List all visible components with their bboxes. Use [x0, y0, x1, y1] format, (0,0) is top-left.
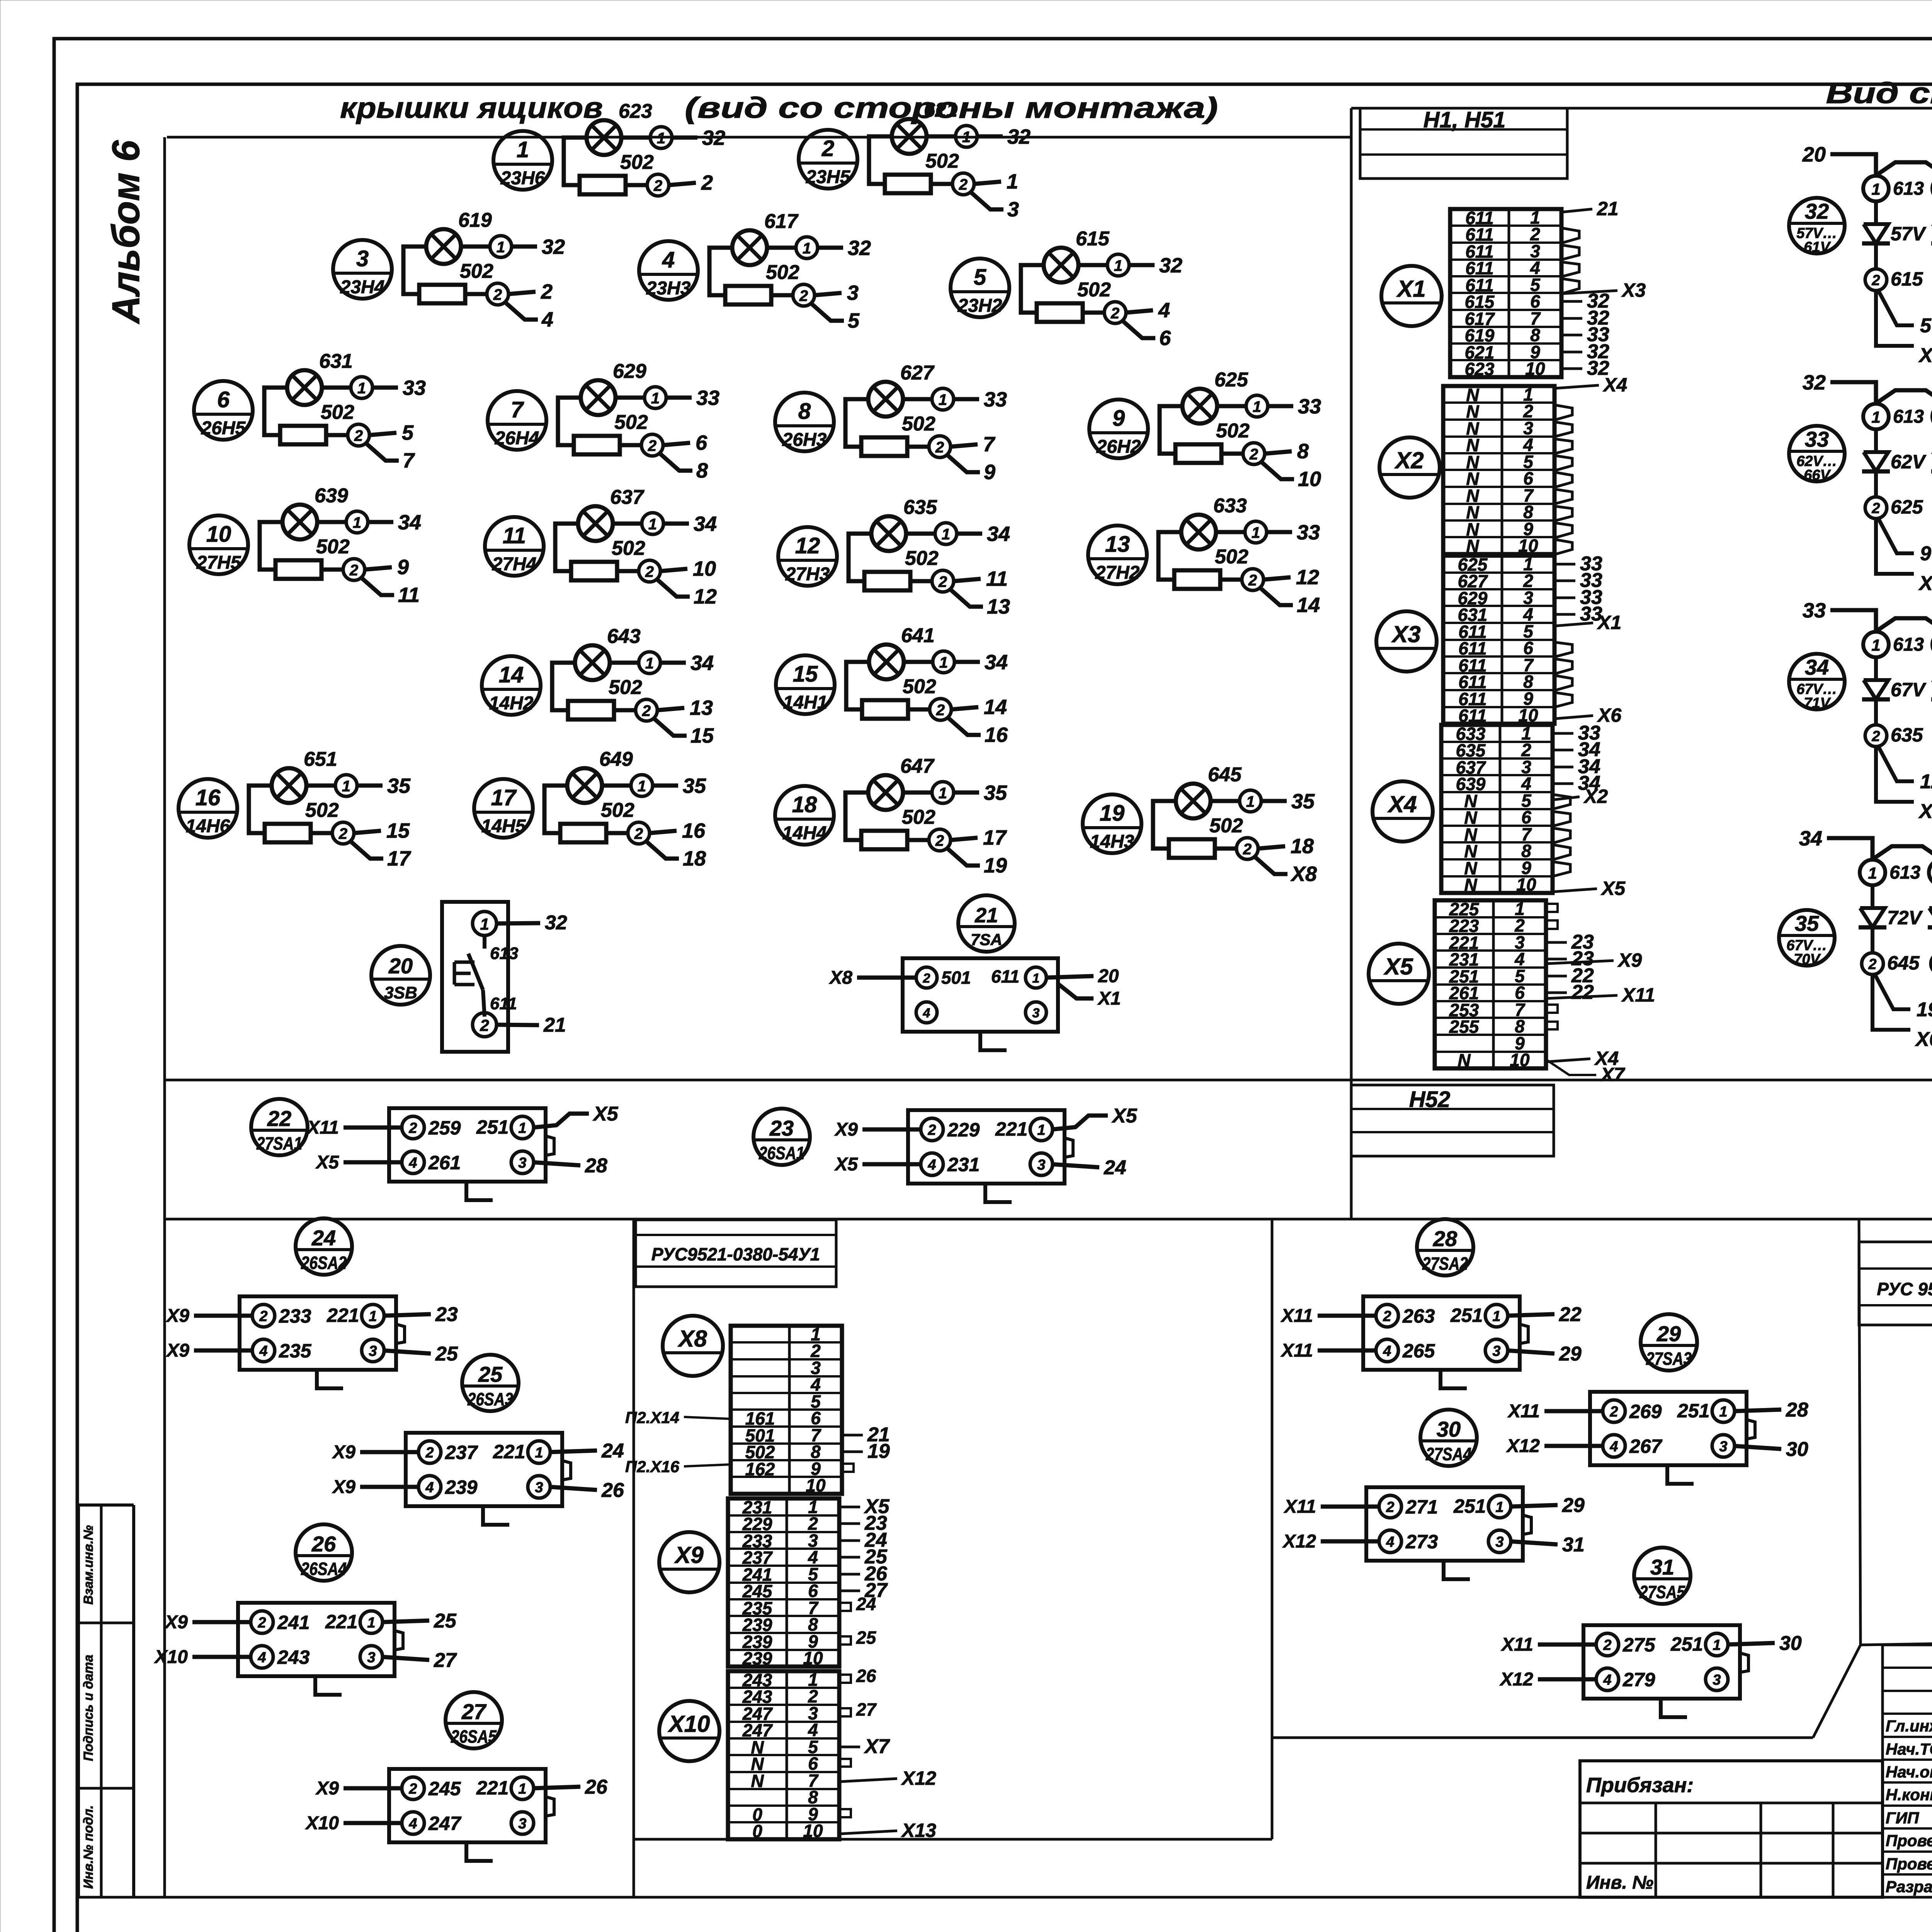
lamp HL 641	[869, 645, 904, 679]
svg-text:239: 239	[445, 1476, 478, 1498]
X4 row 5 tie mark	[1553, 794, 1570, 809]
terminal 4	[251, 1646, 273, 1668]
wire from Х11	[1544, 1409, 1604, 1413]
switch 21 body box	[903, 958, 1058, 1032]
wire to net 21	[497, 1025, 539, 1025]
svg-text:33: 33	[1298, 395, 1321, 418]
svg-text:221: 221	[493, 1441, 525, 1463]
svg-text:2: 2	[642, 702, 651, 719]
branch wire to net 8	[660, 453, 692, 471]
svg-text:19: 19	[984, 854, 1007, 877]
position circle 28/27SA2	[1417, 1219, 1473, 1276]
lamp-diode group 34 (67V...71V)	[1789, 599, 1932, 823]
X9 row 6 wire to 27	[839, 1590, 860, 1592]
svg-text:1: 1	[942, 526, 950, 543]
svg-text:1: 1	[803, 240, 811, 257]
svg-text:2: 2	[936, 702, 945, 719]
resistor 502	[276, 560, 321, 579]
svg-text:231: 231	[947, 1154, 980, 1175]
svg-text:32: 32	[1805, 199, 1829, 223]
ground tail	[466, 1842, 493, 1861]
svg-text:251: 251	[1450, 1304, 1483, 1326]
wire to 27	[382, 1657, 429, 1660]
svg-text:1: 1	[535, 1445, 543, 1461]
svg-text:Х5: Х5	[1600, 878, 1626, 899]
svg-text:Н52: Н52	[1409, 1087, 1450, 1112]
svg-text:7: 7	[511, 397, 524, 422]
switch body box	[1366, 1487, 1523, 1561]
right edge notch	[1065, 1138, 1073, 1157]
svg-text:Х1: Х1	[1396, 276, 1425, 302]
terminal circle 2	[332, 822, 354, 844]
terminal 3	[362, 1339, 384, 1362]
wire to net 35	[653, 784, 678, 788]
wire resistor to terminal 2	[311, 831, 332, 835]
svg-text:34: 34	[694, 512, 717, 536]
svg-text:Х1: Х1	[1097, 988, 1121, 1009]
branch 2: lamp	[1928, 860, 1932, 1051]
lamp HL 649	[567, 768, 602, 803]
button actuator	[453, 962, 456, 985]
svg-text:34: 34	[1805, 655, 1829, 679]
terminal 4	[252, 1339, 275, 1362]
lamp HL 625	[1182, 389, 1217, 423]
position circle 7/26Н4	[488, 391, 546, 450]
wire bracket	[264, 388, 288, 435]
svg-text:15: 15	[793, 662, 818, 687]
svg-text:67V: 67V	[1891, 679, 1927, 701]
X1 row 6 wire to Х3	[1561, 291, 1617, 294]
svg-text:14Н1: 14Н1	[783, 692, 828, 713]
terminal 4	[1603, 1435, 1625, 1457]
position circle 22/27SA1	[251, 1099, 308, 1155]
selector switch 21 (7SA)	[828, 895, 1121, 1050]
svg-text:Взам.инв.№: Взам.инв.№	[81, 1525, 96, 1605]
svg-text:33: 33	[1297, 521, 1320, 544]
svg-text:Провер.: Провер.	[1886, 1855, 1932, 1873]
svg-text:617: 617	[764, 210, 799, 233]
wire to net 3	[815, 293, 842, 295]
svg-text:Х12: Х12	[1506, 1436, 1540, 1456]
X3 row 5 wire to Х1	[1554, 623, 1593, 626]
top bus wire, net 34	[1827, 838, 1872, 859]
X1 row 3 tie mark	[1561, 245, 1579, 260]
selector switch 22 (27SA1)	[251, 1099, 619, 1200]
terminal circle 2	[639, 560, 660, 582]
terminal 1	[1030, 1118, 1053, 1141]
svg-text:623: 623	[1465, 359, 1495, 379]
terminal 4	[402, 1151, 424, 1173]
bus humps	[1876, 162, 1932, 175]
X2 row 7 tie mark	[1554, 489, 1572, 504]
wire to 25	[382, 1621, 429, 1622]
wire lamp to terminal 1	[906, 532, 936, 536]
svg-text:26SA4: 26SA4	[301, 1559, 347, 1579]
svg-text:2: 2	[1248, 572, 1257, 589]
svg-text:14: 14	[984, 696, 1007, 719]
module label RUS9521-0380-54U1 right	[1859, 1242, 1932, 1325]
top bus wire, net 20	[1830, 154, 1876, 175]
svg-text:2: 2	[493, 286, 502, 303]
svg-text:33: 33	[696, 386, 719, 410]
svg-text:29: 29	[1559, 1343, 1582, 1365]
svg-text:635: 635	[1891, 724, 1923, 746]
wire to 28	[1734, 1410, 1781, 1411]
terminal 1	[511, 1116, 534, 1139]
svg-text:18: 18	[1291, 835, 1314, 858]
wire to net 8	[1265, 451, 1292, 454]
svg-text:4: 4	[408, 1155, 417, 1171]
X1 row 9 wire to 32	[1561, 351, 1582, 354]
svg-text:32: 32	[1803, 371, 1826, 394]
wire from Х9	[192, 1620, 252, 1624]
svg-text:221: 221	[476, 1777, 509, 1799]
X10 row 10 wire to Х13	[839, 1831, 897, 1834]
branch 1: terminal 635	[1874, 699, 1878, 725]
svg-text:502: 502	[905, 547, 939, 570]
svg-text:27Н2: 27Н2	[1095, 563, 1140, 583]
terminal circle 1	[796, 237, 818, 259]
svg-text:633: 633	[1213, 495, 1247, 517]
X2 row 2 tie mark	[1554, 405, 1572, 420]
svg-text:613: 613	[490, 944, 518, 963]
svg-text:15: 15	[690, 724, 714, 747]
position circle 19/14Н3	[1083, 794, 1141, 853]
svg-text:265: 265	[1402, 1340, 1435, 1362]
wire lamp to terminal 1	[1217, 404, 1247, 408]
indicator lamp circuit 10 (27Н5)	[189, 485, 421, 607]
svg-text:10: 10	[1298, 468, 1321, 491]
X5 row 4 wire to 23	[1546, 958, 1567, 961]
resistor 502	[574, 436, 620, 454]
lamp-diode group 32 (57V...61V)	[1789, 143, 1932, 367]
branch 1: lamp	[1859, 860, 1932, 1051]
terminal strip table X5	[1435, 899, 1655, 1085]
svg-text:Х4: Х4	[1918, 800, 1932, 823]
svg-text:8: 8	[798, 399, 811, 424]
X2 row 3 tie mark	[1554, 422, 1572, 437]
svg-text:2: 2	[1249, 446, 1258, 463]
ground tail	[985, 1184, 1012, 1202]
resistor 502	[571, 562, 617, 580]
svg-text:12: 12	[795, 533, 820, 558]
wire resistor to terminal 2	[931, 182, 952, 186]
terminal circle 2 of switch	[473, 1013, 497, 1037]
svg-text:Инв. №: Инв. №	[1586, 1872, 1653, 1893]
terminal circle 2	[929, 436, 951, 457]
svg-text:19: 19	[867, 1440, 890, 1463]
X9 row 5 wire to 26	[839, 1573, 860, 1576]
svg-text:32: 32	[545, 912, 567, 934]
svg-text:26SA1: 26SA1	[759, 1143, 804, 1163]
connector designator Х5	[1369, 944, 1429, 1004]
svg-text:2: 2	[259, 1308, 267, 1325]
svg-text:34: 34	[1799, 827, 1822, 850]
svg-text:21: 21	[975, 904, 998, 927]
X3 row 2 wire to 33	[1554, 580, 1575, 582]
band top line (row of cells 22-23)	[165, 1079, 1932, 1082]
wire to net 35	[954, 791, 979, 795]
svg-text:Вид спереди: Вид спереди	[1826, 77, 1932, 110]
svg-text:Х9: Х9	[1617, 949, 1642, 971]
svg-text:229: 229	[947, 1119, 980, 1141]
svg-text:647: 647	[900, 755, 935, 777]
svg-text:502: 502	[1209, 815, 1243, 837]
terminal circle 2	[932, 570, 954, 592]
svg-text:4: 4	[1158, 299, 1170, 322]
X8 external wire П2.Х16	[684, 1464, 731, 1466]
lamp-diode group 35 (67V...70V)	[1779, 827, 1932, 1051]
svg-text:6: 6	[217, 387, 230, 412]
svg-text:645: 645	[1208, 764, 1242, 786]
svg-text:1: 1	[480, 915, 489, 933]
X1 row 10 wire to 32	[1561, 367, 1582, 370]
X5 row 6 wire to Х11	[1546, 995, 1617, 998]
svg-text:62V: 62V	[1891, 451, 1927, 473]
svg-text:501: 501	[941, 968, 971, 988]
indicator lamp circuit 5 (23Н2)	[951, 228, 1182, 350]
svg-text:26Н5: 26Н5	[201, 418, 246, 439]
wire to net 13	[657, 708, 684, 710]
terminal 3	[1485, 1339, 1508, 1362]
terminal 2	[1379, 1495, 1401, 1518]
wire from Х11	[1318, 1314, 1377, 1318]
svg-text:4: 4	[927, 1157, 936, 1173]
wire to 24	[1052, 1164, 1099, 1167]
terminal 2	[252, 1304, 275, 1327]
svg-text:502: 502	[1215, 546, 1248, 568]
branch wire to net 19	[947, 848, 980, 866]
wire to net 5	[369, 433, 396, 435]
lamp HL 621	[892, 119, 927, 154]
X4 row 10 wire to Х5	[1553, 889, 1597, 892]
branch wire to net 3	[971, 192, 1003, 209]
svg-text:502: 502	[1077, 279, 1111, 301]
svg-text:7: 7	[983, 433, 996, 456]
wire to net 18	[1258, 846, 1285, 849]
svg-text:2: 2	[821, 136, 834, 161]
wire from Х11	[344, 1126, 403, 1130]
terminal 2	[402, 1777, 424, 1799]
terminal circle 1	[1107, 254, 1129, 276]
wire resistor to terminal 2	[771, 293, 793, 298]
position circle 8/26Н3	[775, 393, 834, 451]
wire to net 2	[669, 183, 696, 185]
wire resistor to terminal 2	[465, 292, 487, 296]
terminal 4	[916, 1002, 937, 1023]
svg-text:243: 243	[277, 1646, 310, 1668]
svg-text:27: 27	[461, 1699, 487, 1724]
wire lamp to terminal 1	[317, 520, 347, 524]
terminal strip table X8	[731, 1324, 890, 1495]
wire lamp to terminal 1	[610, 661, 639, 665]
svg-text:3: 3	[1492, 1343, 1500, 1359]
X1 row 4 tie mark	[1561, 262, 1579, 277]
svg-text:261: 261	[428, 1152, 461, 1173]
cells 28-31 section diagonal	[1813, 1645, 1861, 1738]
svg-text:31: 31	[1650, 1555, 1674, 1579]
svg-text:Х1: Х1	[1918, 344, 1932, 367]
wire to net 1	[974, 182, 1001, 184]
svg-text:502: 502	[460, 260, 493, 282]
svg-text:Х4: Х4	[1602, 374, 1627, 396]
wire bracket	[849, 534, 872, 581]
resistor 502	[864, 572, 910, 590]
svg-text:71V: 71V	[1804, 695, 1831, 711]
svg-text:2: 2	[935, 439, 944, 456]
terminal circle 2	[647, 174, 669, 196]
position circle 10/27Н5	[189, 515, 248, 574]
svg-text:2: 2	[1868, 956, 1876, 973]
svg-text:6: 6	[696, 431, 707, 454]
X1 row 8 wire to 33	[1561, 334, 1582, 337]
svg-text:32: 32	[702, 126, 725, 150]
position circle 23/26SA1	[753, 1109, 810, 1165]
X3 row 10 wire to Х6	[1554, 716, 1593, 719]
terminal circle 2	[930, 699, 951, 720]
wire resistor to terminal 2	[620, 443, 641, 447]
resistor 502	[1037, 303, 1083, 322]
lamp HL 619	[426, 229, 461, 264]
svg-text:259: 259	[428, 1117, 461, 1139]
svg-text:Х6: Х6	[1915, 1028, 1932, 1051]
svg-text:14Н4: 14Н4	[782, 823, 827, 844]
svg-text:Х5: Х5	[315, 1152, 339, 1173]
svg-text:1: 1	[939, 785, 947, 802]
svg-text:1: 1	[1868, 864, 1877, 882]
right edge notch	[562, 1461, 571, 1480]
right edge notch	[1747, 1420, 1755, 1439]
svg-text:25: 25	[478, 1362, 503, 1386]
svg-text:1: 1	[1495, 1499, 1503, 1515]
svg-text:N: N	[751, 1771, 764, 1791]
resistor 502	[862, 700, 908, 719]
wire resistor to terminal 2	[606, 831, 628, 835]
svg-text:651: 651	[304, 748, 337, 770]
indicator lamp circuit 1 (23Н6)	[493, 100, 725, 196]
ground tail	[466, 1182, 493, 1200]
selector switch 30 (27SA4)	[1282, 1410, 1585, 1579]
X2 row 6 tie mark	[1554, 472, 1572, 487]
svg-text:Х5: Х5	[592, 1103, 619, 1125]
lamp HL 617	[732, 230, 767, 265]
svg-text:6: 6	[1159, 327, 1171, 350]
terminal 1	[528, 1441, 550, 1463]
branch wire to net 9	[947, 455, 980, 472]
lamp-diode group 33 (62V...66V)	[1789, 371, 1932, 595]
X5 row 8 jumper mark	[1546, 1022, 1558, 1029]
svg-text:10: 10	[803, 1821, 823, 1841]
terminal 3	[511, 1812, 534, 1834]
wire to net 32	[818, 246, 843, 250]
right edge notch	[546, 1136, 554, 1155]
switch body box	[1363, 1296, 1520, 1370]
branch wire to net 10	[1261, 462, 1294, 479]
wire bracket	[869, 136, 893, 184]
svg-text:611: 611	[490, 994, 517, 1013]
wire to 28	[533, 1162, 580, 1165]
terminal 4	[1379, 1530, 1401, 1553]
X9 row 4 wire to 25	[839, 1556, 860, 1559]
wire lamp to terminal 1	[322, 386, 352, 390]
wire lamp to terminal 1	[621, 136, 651, 140]
switch enclosure box	[442, 902, 508, 1052]
ground tail	[1661, 1699, 1687, 1717]
svg-text:502: 502	[609, 676, 642, 699]
svg-text:4: 4	[1383, 1343, 1391, 1359]
wire to net 35	[357, 784, 383, 788]
svg-text:18: 18	[683, 847, 706, 870]
branch 1: stub to 5	[1878, 289, 1914, 325]
wire resistor to terminal 2	[321, 568, 343, 572]
wire from Х9	[360, 1485, 419, 1489]
svg-text:1: 1	[1246, 793, 1255, 810]
bus humps	[1876, 618, 1932, 631]
connector designator Х10	[659, 1701, 719, 1761]
svg-text:Х5: Х5	[1383, 954, 1413, 980]
svg-text:27SA3: 27SA3	[1646, 1349, 1692, 1369]
svg-text:Х9: Х9	[315, 1778, 339, 1799]
svg-text:251: 251	[1453, 1495, 1486, 1517]
svg-text:31: 31	[1562, 1534, 1585, 1556]
svg-text:1: 1	[1114, 257, 1122, 274]
svg-text:10: 10	[1516, 874, 1536, 895]
branch 1: terminal 645	[1871, 927, 1874, 953]
svg-text:Провер.: Провер.	[1886, 1832, 1932, 1850]
X8-X10 box bottom	[634, 1838, 1272, 1841]
svg-text:Х3: Х3	[1918, 572, 1932, 595]
switch body box	[389, 1108, 546, 1182]
svg-text:1: 1	[353, 514, 361, 531]
terminal circle 1	[932, 388, 954, 410]
X1 row 7 wire to 32	[1561, 317, 1582, 320]
svg-text:2: 2	[648, 437, 656, 454]
wire to 26	[549, 1487, 597, 1490]
X1 row 6 wire to 32	[1561, 300, 1582, 303]
svg-text:32: 32	[848, 236, 871, 260]
wire to 22	[1507, 1314, 1554, 1316]
svg-text:2: 2	[354, 427, 363, 444]
wire to 24	[549, 1451, 597, 1452]
wire resistor to terminal 2	[326, 433, 348, 437]
ground tail	[1440, 1370, 1467, 1388]
branch 1: stub to Х4	[1876, 747, 1914, 802]
svg-text:22: 22	[1559, 1303, 1582, 1326]
svg-text:255: 255	[1449, 1017, 1480, 1037]
wire bracket	[249, 786, 272, 833]
wire from Х11	[1538, 1643, 1597, 1647]
X5 row 7 jumper mark	[1546, 1005, 1558, 1013]
svg-text:2: 2	[425, 1445, 434, 1461]
indicator lamp circuit 8 (26Н3)	[775, 362, 1007, 484]
svg-text:26SA2: 26SA2	[301, 1253, 347, 1273]
X2 row 5 tie mark	[1554, 456, 1572, 471]
svg-text:Х11: Х11	[1621, 984, 1655, 1006]
svg-text:235: 235	[279, 1340, 312, 1362]
svg-text:Х3: Х3	[1621, 279, 1646, 301]
lamp HL 623	[587, 120, 621, 155]
wire from Х9	[862, 1128, 922, 1132]
lamp HL 651	[272, 768, 306, 803]
svg-text:2: 2	[938, 573, 947, 590]
terminal circle 1	[639, 652, 660, 673]
svg-text:Х10: Х10	[668, 1711, 710, 1737]
svg-text:1: 1	[342, 778, 350, 795]
svg-text:Н1, Н51: Н1, Н51	[1423, 107, 1506, 133]
svg-text:22: 22	[1571, 981, 1594, 1003]
svg-text:643: 643	[607, 625, 641, 648]
svg-text:502: 502	[925, 150, 959, 172]
